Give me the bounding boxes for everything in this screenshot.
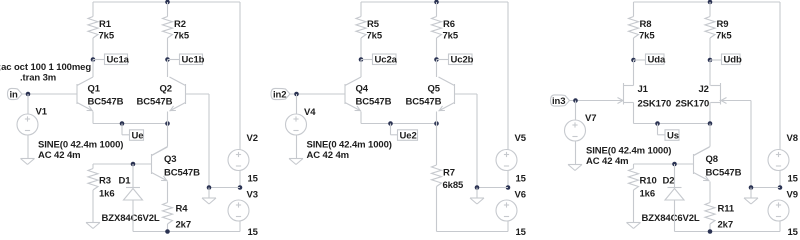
svg-text:BC547B: BC547B — [356, 97, 392, 108]
wire Q5 base — [455, 93, 478, 95]
junction in3 / V7 — [573, 98, 578, 103]
transistor Q2 — [170, 77, 186, 111]
svg-text:Ue: Ue — [132, 130, 144, 141]
wire top rail down to V2 — [239, 2, 241, 150]
svg-text:15: 15 — [248, 227, 259, 236]
wire V4 to ground — [296, 135, 298, 159]
resistor R6 — [432, 2, 442, 60]
ground — [21, 159, 35, 165]
wire R10 / D2 to Q8 base — [634, 163, 694, 165]
wire Uc2b label stub — [437, 59, 449, 61]
transistor Q8 — [694, 147, 710, 181]
resistor R10 — [629, 164, 639, 223]
JFET J2 — [711, 83, 727, 105]
wire Us to Q8 collector — [709, 124, 711, 147]
svg-text:1k6: 1k6 — [640, 189, 656, 200]
wire R9 to J2 drain — [709, 60, 711, 86]
svg-text:Q5: Q5 — [428, 84, 441, 95]
wire V9 to bottom rail — [779, 221, 781, 232]
wire bottom supply rail circuit 3 — [675, 231, 781, 233]
wire Us leader right — [658, 134, 666, 136]
svg-text:Ue2: Ue2 — [400, 130, 417, 141]
voltage source V6 — [496, 200, 517, 221]
wire top supply rail circuit 3 — [634, 1, 781, 3]
resistor R1 — [88, 2, 98, 60]
wire top rail down to V5 — [507, 2, 509, 150]
svg-text:SINE(0 42.4m 1000): SINE(0 42.4m 1000) — [586, 146, 671, 157]
transistor Q5 — [439, 77, 455, 111]
wire bottom supply rail circuit 1 — [133, 231, 240, 233]
wire in2 to Q4 base — [290, 93, 345, 95]
svg-text:D2: D2 — [663, 176, 675, 187]
svg-text:R1: R1 — [99, 19, 112, 30]
svg-text:2k7: 2k7 — [718, 220, 734, 231]
wire V2 to mid junction — [239, 171, 241, 188]
wire Uda label stub — [634, 59, 646, 61]
wire V8 to mid junction — [779, 171, 781, 188]
wire Us leader down — [657, 124, 659, 135]
wire mid junction to ground 3 — [751, 187, 780, 189]
wire V3 to bottom rail — [239, 221, 241, 232]
svg-text:V3: V3 — [247, 190, 258, 201]
junction Q5 base / supply ground — [475, 185, 480, 190]
wire bottom supply rail circuit 2 — [437, 231, 509, 233]
node label Us — [665, 130, 679, 142]
wire Q2 base — [186, 93, 210, 95]
wire Uc1a label stub — [93, 59, 105, 61]
svg-text:R6: R6 — [443, 19, 455, 30]
svg-text:J2: J2 — [699, 84, 709, 95]
svg-text:15: 15 — [248, 174, 259, 185]
svg-text:Q1: Q1 — [88, 84, 101, 95]
svg-text:7k5: 7k5 — [639, 31, 655, 42]
resistor R9 — [705, 2, 715, 60]
svg-text:R8: R8 — [640, 19, 652, 30]
voltage source V5 — [496, 150, 517, 171]
svg-text:7k5: 7k5 — [716, 31, 732, 42]
transistor Q4 — [345, 77, 361, 111]
zener diode D2 — [665, 188, 684, 201]
wire Ue2 leader down — [390, 124, 392, 135]
junction D2 / Q8 base — [672, 162, 677, 167]
voltage source V9 — [768, 200, 789, 221]
node label Uc1b — [180, 54, 205, 66]
svg-text:V1: V1 — [36, 107, 48, 118]
wire Q3 emitter to R4 — [167, 182, 169, 203]
svg-text:V2: V2 — [247, 133, 258, 144]
junction in2 / V4 — [294, 92, 299, 97]
wire Q4 emitter down — [360, 112, 362, 124]
junction bottom rail / R4 — [165, 229, 170, 234]
svg-text:Uc2b: Uc2b — [451, 55, 474, 66]
junction Ue / Q3 collector — [165, 121, 170, 126]
transistor Q1 — [77, 77, 93, 111]
junction in / V1 — [26, 92, 31, 97]
svg-text:R4: R4 — [176, 204, 189, 215]
wire J1 source down — [633, 103, 635, 124]
svg-text:Udb: Udb — [724, 55, 742, 66]
svg-text:SINE(0 42.4m 1000): SINE(0 42.4m 1000) — [38, 140, 123, 151]
svg-text:in: in — [10, 89, 19, 100]
resistor R11 — [705, 203, 715, 232]
junction top rail / R9 — [708, 0, 713, 4]
svg-text:V4: V4 — [304, 107, 316, 118]
svg-text:15: 15 — [516, 227, 527, 236]
resistor R3 — [88, 164, 98, 223]
ground — [744, 198, 758, 204]
node label Uc2b — [449, 54, 474, 66]
wire R3 / D1 to Q3 base — [93, 163, 152, 165]
wire Uc2a label stub — [361, 59, 373, 61]
voltage source V2 — [228, 150, 249, 171]
wire Q1 emitter down — [92, 112, 94, 124]
port in — [8, 88, 23, 100]
wire V1 to ground — [27, 135, 29, 159]
wire V7 to ground — [575, 141, 577, 165]
wire Q5 emitter down — [436, 112, 438, 124]
svg-text:AC 42 4m: AC 42 4m — [307, 150, 350, 161]
wire R6 to Q5 collector — [436, 60, 438, 78]
node Ue label junction — [120, 121, 125, 126]
ground — [86, 223, 100, 229]
wire R8 to J1 drain — [633, 60, 635, 86]
svg-text:Uc1b: Uc1b — [182, 55, 205, 66]
wire Q2 base down to ground rail — [208, 94, 210, 188]
node Uc2b junction — [434, 57, 439, 62]
svg-text:in2: in2 — [273, 89, 286, 100]
svg-text:R11: R11 — [718, 204, 735, 215]
wire Q3 collector diagonal — [152, 147, 168, 156]
svg-text:R2: R2 — [174, 19, 186, 30]
wire top supply rail circuit 2 — [361, 1, 508, 3]
node label Uc1a — [105, 54, 130, 66]
node Ue2 label junction — [388, 121, 393, 126]
voltage source V3 — [228, 200, 249, 221]
wire Q2 emitter down — [167, 112, 169, 124]
node label Ue2 — [398, 130, 418, 142]
resistor R8 — [629, 2, 639, 60]
svg-text:7k5: 7k5 — [99, 31, 115, 42]
svg-text:R7: R7 — [443, 168, 455, 179]
wire in3 to J1 gate — [570, 100, 624, 102]
wire node Ue — [93, 123, 168, 125]
wire R1 to Q1 collector — [92, 60, 94, 78]
wire D2 cathode lead — [674, 164, 676, 188]
transistor Q3 — [152, 147, 168, 181]
svg-text:Q4: Q4 — [356, 84, 369, 95]
svg-text:Uda: Uda — [648, 55, 666, 66]
voltage source V4 — [286, 114, 307, 135]
junction J2 gate / supply ground — [749, 185, 754, 190]
wire D2 anode to bottom rail — [674, 200, 676, 232]
svg-text:BC547B: BC547B — [88, 97, 124, 108]
svg-text:2k7: 2k7 — [176, 220, 192, 231]
wire mid junction to ground 2 — [477, 187, 508, 189]
wire node Ue2 — [361, 123, 437, 125]
svg-text:;ac oct 100 1 100meg: ;ac oct 100 1 100meg — [0, 62, 91, 73]
svg-text:in3: in3 — [552, 96, 565, 107]
svg-text:1k6: 1k6 — [99, 189, 115, 200]
junction top rail / R6 — [434, 0, 439, 4]
node Uc2a junction — [359, 57, 364, 62]
svg-text:7k5: 7k5 — [367, 31, 383, 42]
ground — [627, 223, 641, 229]
node label Uda — [646, 54, 666, 66]
junction Ue2 / R7 — [434, 121, 439, 126]
wire top supply rail circuit 1 — [93, 1, 240, 3]
svg-text:6k85: 6k85 — [443, 180, 465, 191]
svg-text:Uc1a: Uc1a — [107, 55, 130, 66]
wire D1 anode to bottom rail — [132, 200, 134, 232]
wire in node to V1 — [27, 94, 29, 114]
node Uc1b junction — [165, 57, 170, 62]
svg-text:BZX84C6V2L: BZX84C6V2L — [102, 213, 160, 224]
svg-text:7k5: 7k5 — [443, 31, 459, 42]
svg-text:R3: R3 — [99, 176, 111, 187]
wire mid junction to ground — [209, 187, 240, 189]
resistor R4 — [163, 203, 173, 232]
JFET J1 — [618, 83, 634, 105]
svg-text:BC547B: BC547B — [137, 97, 173, 108]
svg-text:.tran 3m: .tran 3m — [20, 73, 56, 84]
svg-text:15: 15 — [788, 174, 799, 185]
wire supply ground stub 2 — [476, 188, 478, 199]
node label Udb — [722, 54, 742, 66]
wire in2 node to V4 — [296, 94, 298, 114]
wire supply ground stub 3 — [750, 188, 752, 199]
svg-text:J1: J1 — [638, 84, 649, 95]
junction Q2 base / supply ground — [207, 185, 212, 190]
wire in3 node to V7 — [575, 101, 577, 121]
wire supply ground stub — [208, 188, 210, 199]
junction top rail / R2 — [165, 0, 170, 4]
wire Udb label stub — [710, 59, 722, 61]
svg-text:BC547B: BC547B — [706, 168, 742, 179]
svg-text:2SK170: 2SK170 — [638, 99, 672, 110]
svg-text:AC 42 4m: AC 42 4m — [38, 150, 81, 161]
wire J2 source down — [709, 103, 711, 124]
wire Ue to Q3 collector — [167, 124, 169, 147]
svg-text:SINE(0 42.4m 1000): SINE(0 42.4m 1000) — [307, 140, 392, 151]
svg-text:Us: Us — [667, 130, 679, 141]
resistor R5 — [356, 2, 366, 60]
voltage source V1 — [17, 114, 38, 135]
node Uc1a junction — [91, 57, 96, 62]
wire Q5 base down to ground rail — [476, 94, 478, 188]
svg-text:2SK170: 2SK170 — [676, 99, 710, 110]
svg-text:15: 15 — [788, 227, 799, 236]
wire Ue2 leader right — [391, 134, 398, 136]
resistor R7 — [432, 124, 442, 232]
svg-text:V7: V7 — [585, 113, 596, 124]
node Udb junction — [708, 58, 713, 63]
ground — [568, 165, 582, 171]
wire Uc1b label stub — [168, 59, 180, 61]
wire Q8 emitter to R11 — [709, 182, 711, 203]
svg-text:V6: V6 — [515, 190, 526, 201]
junction V5 / V6 — [506, 185, 511, 190]
svg-text:BZX84C6V2L: BZX84C6V2L — [642, 213, 700, 224]
wire J2 gate — [720, 100, 752, 102]
zener diode D1 — [124, 188, 143, 201]
wire V5 to mid junction — [507, 171, 509, 188]
ground — [289, 159, 303, 165]
junction bottom rail / R11 — [708, 229, 713, 234]
junction V8 / V9 — [778, 185, 783, 190]
ground — [202, 198, 216, 204]
svg-text:BC547B: BC547B — [406, 97, 442, 108]
wire top rail down to V8 — [779, 2, 781, 150]
svg-text:R9: R9 — [717, 19, 729, 30]
node Us label junction — [655, 121, 660, 126]
svg-text:Q2: Q2 — [160, 84, 172, 95]
svg-text:V8: V8 — [787, 133, 798, 144]
svg-text:V9: V9 — [787, 190, 798, 201]
svg-text:BC547B: BC547B — [164, 168, 200, 179]
voltage source V7 — [565, 120, 586, 141]
port in2 — [271, 88, 290, 100]
svg-text:V5: V5 — [515, 133, 527, 144]
node label Ue — [130, 130, 144, 142]
svg-text:Q3: Q3 — [164, 154, 176, 165]
svg-text:7k5: 7k5 — [174, 31, 190, 42]
wire Ue leader down — [121, 124, 123, 135]
voltage source V8 — [768, 150, 789, 171]
ground — [470, 198, 484, 204]
wire Q8 collector diagonal — [694, 147, 711, 156]
svg-text:AC 42 4m: AC 42 4m — [586, 156, 629, 167]
wire in to Q1 base — [22, 93, 77, 95]
wire D1 cathode lead — [132, 164, 134, 188]
junction V2 / V3 — [238, 185, 243, 190]
junction D1 / Q3 base — [131, 162, 136, 167]
svg-text:R10: R10 — [640, 176, 657, 187]
svg-text:R5: R5 — [367, 19, 380, 30]
wire node Us — [634, 123, 711, 125]
port in3 — [551, 95, 570, 107]
resistor R2 — [163, 2, 173, 60]
wire Ue leader right — [122, 134, 130, 136]
svg-text:15: 15 — [516, 174, 527, 185]
svg-text:Q8: Q8 — [706, 154, 718, 165]
svg-text:Uc2a: Uc2a — [375, 55, 398, 66]
junction Us / Q8 collector — [708, 121, 713, 126]
wire V6 to bottom rail — [507, 221, 509, 232]
wire R2 to Q2 collector — [167, 60, 169, 78]
node label Uc2a — [373, 54, 398, 66]
svg-text:D1: D1 — [119, 176, 132, 187]
wire J2 gate down to ground rail — [750, 101, 752, 188]
wire R5 to Q4 collector — [360, 60, 362, 78]
node Uda junction — [631, 58, 636, 63]
